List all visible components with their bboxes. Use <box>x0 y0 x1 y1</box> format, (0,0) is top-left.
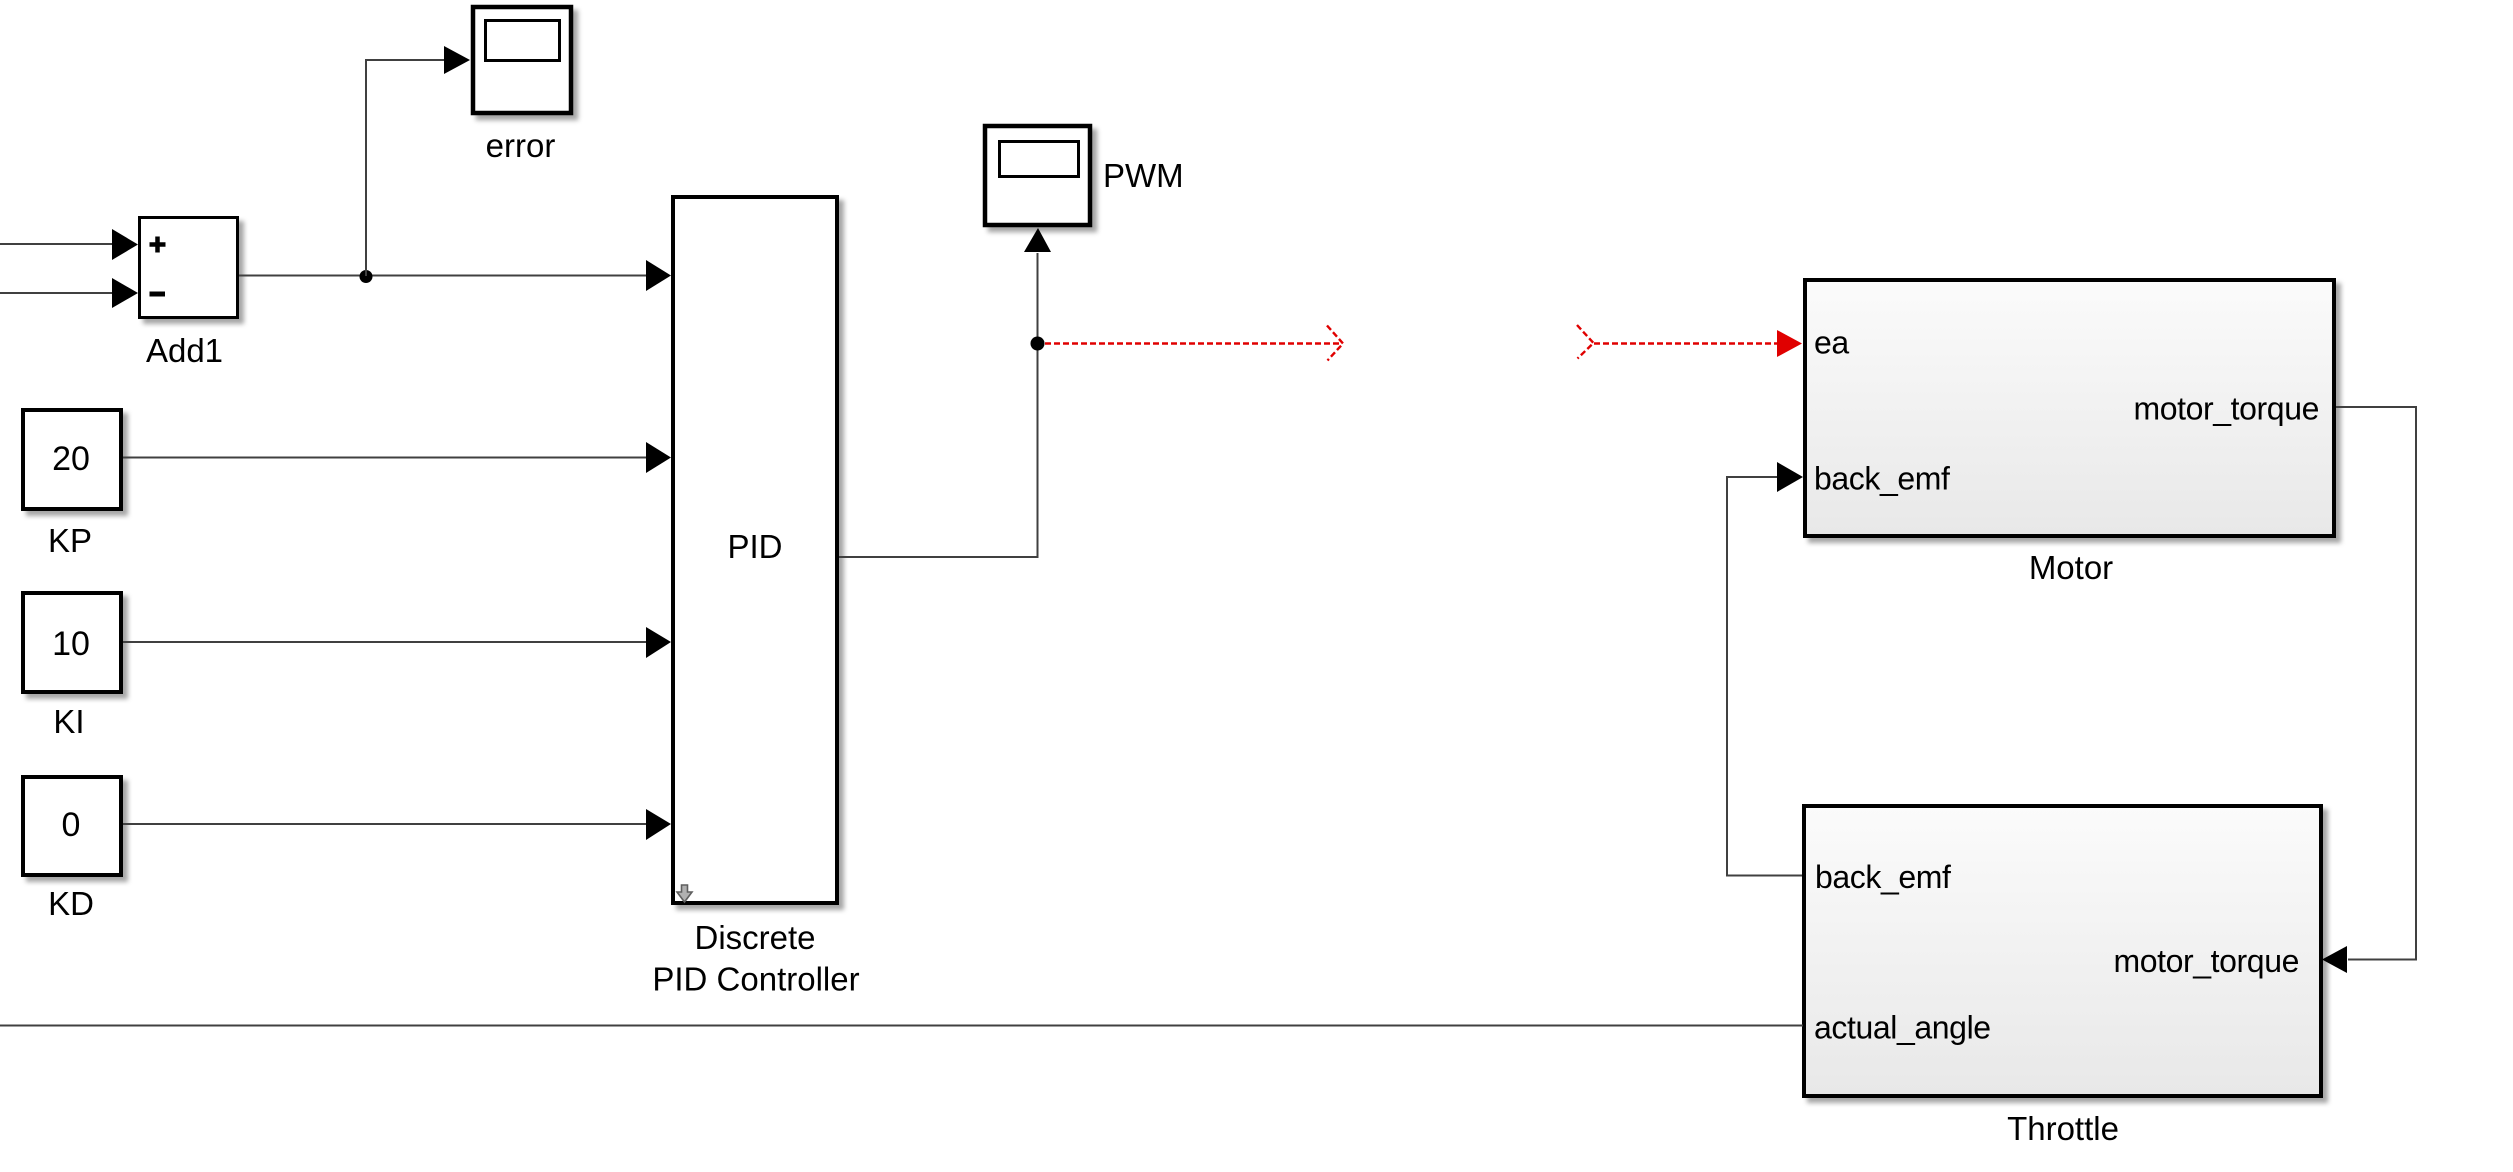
scope block error <box>473 7 571 113</box>
wire KI to PID <box>123 627 671 658</box>
wire actual_angle feedback to far left <box>0 1025 1803 1027</box>
svg-text:error: error <box>486 127 556 164</box>
svg-text:PWM: PWM <box>1103 157 1184 194</box>
subsystem block Throttle <box>1804 806 2321 1096</box>
red dashed signal segment 2 into Motor ea <box>1577 325 1802 359</box>
svg-text:actual_angle: actual_angle <box>1814 1010 1991 1046</box>
svg-text:Discrete: Discrete <box>694 919 815 956</box>
svg-text:0: 0 <box>62 806 81 844</box>
svg-text:PID Controller: PID Controller <box>652 961 859 998</box>
wire Throttle back_emf output to Motor back_emf input <box>1727 462 1803 876</box>
constant block KI value 10 <box>23 593 121 692</box>
svg-text:motor_torque: motor_torque <box>2133 391 2319 427</box>
svg-text:KP: KP <box>48 522 92 559</box>
junction node after Add1 <box>360 270 373 283</box>
label Discrete PID Controller <box>652 919 859 998</box>
wire into Add1 minus input (feedback) <box>0 278 138 308</box>
wire Add1 output to PID error input <box>239 260 671 291</box>
svg-text:back_emf: back_emf <box>1815 859 1951 895</box>
sum block Add1 <box>140 218 238 318</box>
svg-text:PID: PID <box>727 528 782 565</box>
svg-text:ea: ea <box>1814 325 1849 361</box>
junction node on PWM wire <box>1031 337 1045 351</box>
wire into Add1 plus input <box>0 229 138 260</box>
subsystem block Motor <box>1805 280 2334 536</box>
constant block KD value 0 <box>23 777 121 875</box>
svg-text:KI: KI <box>53 703 84 740</box>
svg-text:20: 20 <box>52 440 90 478</box>
red dashed signal segment 1 with open arrowhead <box>1045 326 1343 361</box>
wire PID output to PWM scope <box>839 228 1051 557</box>
constant block KP value 20 <box>23 410 121 509</box>
Discrete PID Controller block <box>673 197 837 903</box>
svg-text:Throttle: Throttle <box>2007 1110 2119 1147</box>
svg-text:Add1: Add1 <box>146 332 223 369</box>
svg-text:motor_torque: motor_torque <box>2113 943 2299 979</box>
svg-text:10: 10 <box>52 625 90 663</box>
svg-text:back_emf: back_emf <box>1814 461 1950 497</box>
svg-text:Motor: Motor <box>2029 549 2113 586</box>
svg-text:KD: KD <box>48 885 94 922</box>
wire KP to PID <box>123 442 671 473</box>
wire branch to error scope <box>366 46 470 276</box>
scope block PWM <box>985 126 1090 225</box>
wire KD to PID <box>123 809 671 840</box>
wire Motor motor_torque output to Throttle motor_torque input <box>2322 407 2416 973</box>
